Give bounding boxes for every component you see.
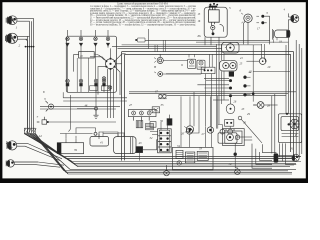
fan box (heater, bottom right)	[278, 113, 301, 143]
lamp 13a (panel lamp)	[66, 30, 70, 48]
svg-text:12: 12	[39, 134, 43, 138]
border frame	[0, 0, 308, 183]
heater motor 28	[253, 102, 264, 109]
wire stub below caption	[148, 29, 150, 49]
resistor block b	[146, 123, 154, 129]
trailer socket left	[164, 165, 170, 176]
right side vertical wires	[286, 40, 302, 158]
trailer socket 24	[235, 169, 241, 175]
lamps under switch	[102, 77, 106, 81]
connector strip 47	[128, 110, 156, 122]
small circle 25 above cluster	[186, 128, 192, 134]
panel horizontal pair-wires to fuse dots	[197, 78, 229, 100]
cluster riser wires	[181, 96, 230, 147]
fuel sender 26	[184, 96, 193, 133]
brake switch 35	[149, 107, 160, 113]
svg-text:30 — включатель плафона; 31 —: 30 — включатель плафона; 31 — плафон куз…	[90, 23, 196, 26]
caption text block	[90, 3, 197, 27]
terminal dots left column	[229, 79, 232, 97]
svg-text:2: 2	[19, 44, 21, 48]
twin unit wires	[235, 137, 252, 169]
lamp 13b	[79, 30, 83, 48]
gauge 14 (left, in panel)	[154, 54, 188, 63]
twin fuse 19 (round pair)	[220, 61, 237, 71]
ammeter 20	[246, 44, 290, 71]
lamp row2 a	[66, 79, 70, 92]
gauge 15 (lower small)	[154, 72, 201, 77]
generator 43	[114, 133, 143, 153]
wiper motor 9	[45, 101, 53, 112]
bottom-right wire loops	[252, 144, 276, 169]
central light switch 22	[90, 48, 126, 118]
svg-text:1: 1	[16, 26, 18, 30]
ground symbol 48	[77, 107, 99, 118]
headlamp 2 (left front, lower)	[5, 33, 29, 43]
terminal pair (a)	[256, 15, 269, 45]
lamp row2 b	[79, 79, 83, 92]
ignition unit 40	[90, 132, 109, 146]
fuse holder cylinder A	[188, 54, 196, 68]
switch 36 (small dark)	[167, 115, 172, 126]
bulkhead connector 37	[158, 94, 167, 99]
fan box drop wires	[280, 143, 297, 164]
box39 riser curves	[60, 48, 125, 139]
washer switch 7	[37, 117, 49, 124]
lamp 14	[94, 30, 98, 48]
oil pressure unit 18 (cylinder, top right)	[272, 29, 290, 43]
starter relay 11	[223, 129, 245, 146]
twin round unit right of battery	[218, 129, 237, 143]
generator drop to bundle	[139, 140, 157, 161]
wires grommet to tail lamp	[276, 155, 296, 161]
distributor / horn circle 6	[241, 13, 252, 44]
relay box 10 (dimmer switch)	[74, 52, 105, 72]
svg-text:О: О	[181, 64, 183, 67]
top-right horizontal wires	[122, 38, 289, 105]
svg-text:Рк: Рк	[197, 34, 202, 38]
terminal dots right column	[244, 76, 251, 97]
fuse holder cylinder B	[197, 60, 205, 69]
resistor block a	[136, 121, 143, 128]
svg-text:Р: Р	[294, 133, 297, 137]
big box (cab outline)	[122, 52, 294, 161]
headlamp 1 (left front, top)	[6, 16, 33, 25]
lamp row2 d	[102, 79, 106, 92]
bottom horizontal bundle A	[72, 162, 301, 167]
headlamp 4 (bottom left small)	[6, 160, 64, 168]
lamp 4 (turn indicator)	[106, 30, 110, 48]
bundle connector dots	[25, 46, 35, 48]
panel interior verticals	[160, 54, 212, 126]
bimetal fuse 21 (round, upper)	[222, 42, 239, 53]
right top lamp (4 turn lamp)	[288, 13, 298, 40]
turn-signal unit 25	[201, 67, 215, 73]
middle horizontal wires	[40, 74, 296, 122]
grommet (dark bar)	[274, 153, 279, 162]
junction dot right	[234, 153, 237, 156]
lamp under switch b	[108, 86, 112, 90]
instrument lamp grid box	[63, 36, 127, 101]
battery riser wires	[161, 122, 168, 130]
temp sender 27	[207, 96, 213, 133]
tail lamp right	[292, 154, 299, 161]
fuse block column wires	[217, 44, 224, 129]
wire: top horizontal run	[112, 47, 222, 49]
wire: diagonal bundle to bottom bundle	[24, 134, 301, 174]
regulator cluster 33	[172, 147, 213, 169]
battery 32	[150, 129, 171, 153]
headlamp 3 (bottom left)	[6, 141, 62, 161]
bottom horizontal bundle B	[64, 169, 296, 174]
small box 48	[150, 122, 156, 128]
junction block 12	[24, 128, 36, 133]
lamp row2 c	[94, 79, 98, 92]
terminal box above relay	[225, 120, 234, 127]
heater resistor box 39	[57, 139, 84, 154]
dark block under fuses	[229, 72, 234, 77]
ignition coil unit 5 (rounded enclosure)	[204, 3, 227, 45]
wires to grommet	[272, 94, 275, 154]
left wire bundle (vertical)	[26, 18, 34, 133]
ring terminal 23 (oval)	[226, 97, 235, 113]
stoplight switch 29 circle	[238, 116, 262, 143]
